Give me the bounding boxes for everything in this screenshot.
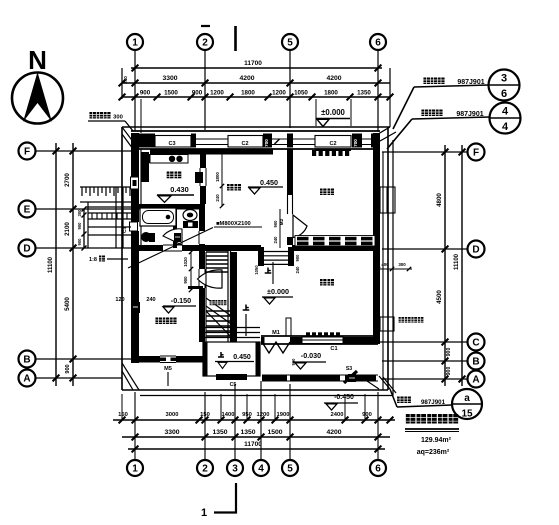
wall lines right end [362, 138, 371, 140]
apron corner diagonal top-left [122, 127, 137, 147]
svg-text:0.450: 0.450 [260, 178, 278, 187]
svg-text:900: 900 [446, 348, 452, 357]
AC shelf lower right (kongtiao geban) [380, 317, 394, 331]
svg-text:2100: 2100 [64, 222, 71, 236]
svg-text:120: 120 [115, 297, 124, 303]
section mark 1 top [234, 26, 237, 51]
svg-text:D: D [23, 244, 30, 255]
label toolroom [155, 318, 162, 325]
svg-text:4500: 4500 [436, 290, 443, 304]
grid line B horizontal [35, 358, 131, 360]
dim 1020/900 door M4 [190, 252, 192, 290]
svg-text:900: 900 [192, 90, 203, 97]
grid bubble B right [468, 353, 485, 370]
dimension column left overall 11100 [55, 143, 57, 386]
svg-text:C5: C5 [230, 382, 237, 388]
svg-text:aq=236m²: aq=236m² [417, 449, 450, 456]
svg-text:1200: 1200 [210, 90, 224, 97]
svg-text:240: 240 [273, 236, 278, 244]
grid bubble B left [19, 351, 36, 368]
apron outline [122, 126, 390, 128]
terrace corner steps bottom-right [367, 381, 379, 389]
svg-text:2400: 2400 [331, 412, 344, 418]
grid line 5 vertical [289, 50, 291, 128]
callout sanshui 987J901 leader [387, 119, 412, 149]
svg-text:900: 900 [65, 364, 71, 373]
steps dining to living [258, 247, 264, 266]
door M3 bath arc [163, 229, 182, 245]
extension connectors top dim rows [121, 68, 123, 99]
grid line A horizontal [35, 377, 122, 379]
grid line 4 vertical bottom [260, 381, 262, 460]
label living room [320, 279, 327, 286]
porch bottom band [216, 374, 247, 380]
svg-text:3: 3 [501, 73, 507, 85]
grid bubble D right [468, 241, 485, 258]
svg-text:6: 6 [375, 38, 381, 49]
staircase lower treads [206, 310, 235, 312]
wall stub under M4 door [188, 286, 203, 289]
door M2 bedroom arc [293, 215, 307, 238]
bathtub [140, 208, 176, 226]
wall grid2 upper kitchen east [200, 149, 206, 168]
grid bubble 3 bottom [227, 460, 243, 476]
ramp hatch comb [80, 186, 131, 188]
svg-text:5: 5 [287, 464, 293, 475]
svg-text:987J901: 987J901 [456, 111, 483, 118]
svg-text:900: 900 [273, 220, 278, 228]
svg-text:300: 300 [77, 209, 82, 217]
svg-text:1050: 1050 [254, 265, 259, 275]
grid bubble 1 bottom [127, 460, 143, 476]
svg-text:C2: C2 [329, 141, 336, 147]
porch side columns [203, 342, 207, 376]
svg-text:240: 240 [146, 297, 155, 303]
svg-text:0.450: 0.450 [233, 354, 251, 361]
label dining room [227, 184, 234, 191]
svg-text:3: 3 [232, 464, 238, 475]
svg-text:700: 700 [353, 139, 358, 147]
dim 1800/240 dining west [221, 152, 223, 206]
dimension row bottom 3300/1350/1350/1500/4200 [122, 436, 390, 438]
svg-text:-0.450: -0.450 [334, 394, 354, 401]
bedroom wardrobe dashes row D [295, 236, 375, 247]
wall top exterior band [131, 130, 380, 132]
svg-text:A: A [472, 375, 479, 386]
svg-text:900: 900 [291, 358, 296, 366]
wall row E kitchen south [137, 204, 203, 210]
svg-text:D: D [472, 245, 479, 256]
svg-text:1500: 1500 [267, 429, 282, 436]
grid bubble 2 top [197, 34, 213, 50]
svg-text:11700: 11700 [244, 441, 262, 448]
dimension row top 240/3300/4200/4200 [122, 82, 390, 84]
svg-text:S3: S3 [346, 366, 352, 372]
callout minggou text [423, 78, 430, 85]
svg-text:±0.000: ±0.000 [321, 108, 345, 117]
label storage room [210, 300, 215, 305]
kitchen west window slot [131, 177, 139, 189]
kitchen west counter block [141, 152, 149, 182]
wall bath partition tub/WC [173, 209, 177, 248]
grid bubble F left [19, 143, 36, 160]
svg-text:N: N [28, 45, 47, 75]
stair up arrow hall [245, 305, 247, 311]
grid line F horizontal [35, 150, 131, 152]
wall row B toolroom south [137, 356, 160, 363]
grid bubble 4 bottom [253, 460, 269, 476]
AC shelf upper right [380, 187, 395, 213]
svg-text:C: C [472, 338, 479, 349]
wall right exterior [373, 133, 380, 344]
svg-text:900: 900 [446, 367, 452, 376]
grid line E horizontal [35, 208, 131, 210]
dimension row top overall 11700 [131, 67, 382, 69]
svg-text:900: 900 [295, 254, 300, 262]
svg-text:11100: 11100 [48, 256, 54, 273]
svg-text:2: 2 [202, 464, 208, 475]
svg-text:5400: 5400 [64, 297, 71, 311]
wall left exterior [131, 133, 139, 222]
apron corner diagonal bottom-left [122, 363, 139, 390]
svg-text:■M800X2100: ■M800X2100 [216, 221, 251, 227]
grid bubble D left [19, 240, 36, 257]
svg-text:4200: 4200 [326, 75, 341, 82]
svg-text:F: F [473, 148, 479, 159]
svg-text:-0.150: -0.150 [171, 296, 191, 305]
svg-text:1350: 1350 [357, 90, 371, 97]
callout sanshui text [421, 110, 428, 117]
washbasin toolroom [142, 233, 151, 242]
grid line 2 vertical [204, 50, 206, 130]
window C3 top wall [155, 136, 191, 148]
grid bubble 6 bottom [370, 460, 386, 476]
callout circle 4/4 [490, 103, 521, 134]
svg-text:M1: M1 [272, 330, 280, 336]
grid bubble A right [468, 371, 485, 388]
wall lines between C2 and C2 [272, 138, 315, 140]
svg-text:C2: C2 [241, 141, 248, 147]
window C2 top wall right [315, 136, 351, 148]
grid line 6 vertical [377, 50, 379, 131]
svg-text:F: F [24, 147, 30, 158]
svg-text:700: 700 [264, 139, 269, 147]
dimension row top fine 900/1500/900/1200/1800/1200/1050/1800/1350 [122, 96, 390, 98]
svg-text:4: 4 [258, 464, 264, 475]
dimension column left 2700/2100/5400/900 [72, 143, 74, 386]
svg-text:2700: 2700 [64, 173, 71, 187]
svg-text:E: E [24, 205, 31, 216]
svg-text:1800: 1800 [241, 90, 255, 97]
wall row C living south [261, 335, 378, 337]
dim 900/240 door jamb dining [279, 209, 281, 248]
callout circle 3/6 [489, 70, 520, 101]
callout circle a/15 [452, 389, 482, 419]
grid bubble A left [19, 370, 36, 387]
staircase break diagonals [206, 298, 234, 318]
wall left exterior lower [131, 231, 139, 363]
svg-text:1: 1 [201, 507, 207, 519]
svg-text:900: 900 [183, 276, 188, 284]
svg-text:240: 240 [123, 76, 128, 84]
svg-text:1200: 1200 [272, 90, 286, 97]
svg-text:3300: 3300 [164, 429, 179, 436]
svg-text:4200: 4200 [326, 429, 341, 436]
wall grid2 middle WC east [199, 204, 205, 231]
apron corner diagonal top-right [378, 127, 390, 134]
svg-text:5: 5 [287, 38, 293, 49]
staircase upper treads [206, 251, 228, 253]
svg-text:a: a [464, 393, 470, 404]
staircase rails [227, 248, 229, 342]
svg-text:900: 900 [77, 222, 82, 230]
toilet [183, 210, 197, 221]
callout minggou 987J901 leader [393, 87, 414, 129]
bedroom north wall inner shadow [315, 149, 351, 152]
extension lines bottom [121, 394, 123, 420]
svg-text:4800: 4800 [436, 193, 443, 207]
grid bubble 6 top [370, 34, 386, 50]
dimension row bottom overall 11700 [128, 448, 385, 450]
svg-text:C1: C1 [330, 346, 337, 352]
svg-text:C3: C3 [168, 141, 175, 147]
svg-text:1350: 1350 [212, 429, 227, 436]
grid bubble 5 bottom [282, 460, 298, 476]
svg-text:M5: M5 [164, 366, 172, 372]
label bedroom [320, 189, 327, 196]
svg-text:4: 4 [502, 106, 509, 118]
svg-text:1350: 1350 [240, 429, 255, 436]
svg-text:900: 900 [140, 90, 151, 97]
grid line D horizontal [35, 247, 131, 249]
title yiceng pingmiantu [406, 414, 416, 424]
porch level 0.450 [220, 352, 222, 357]
porch outline [203, 342, 260, 376]
grid bubble 5 top [282, 34, 298, 50]
svg-text:11700: 11700 [244, 60, 262, 67]
svg-text:240: 240 [295, 266, 300, 274]
svg-text:B: B [472, 357, 479, 368]
callout taijie 987J901 leader [390, 389, 397, 407]
svg-text:±0.000: ±0.000 [267, 287, 289, 296]
svg-text:900: 900 [77, 238, 82, 246]
label kitchen [167, 172, 174, 179]
grid bubble 2 bottom [197, 460, 213, 476]
svg-text:129.94m²: 129.94m² [421, 437, 452, 444]
svg-text:1400: 1400 [222, 412, 235, 418]
dimension column right overall 11100 [461, 145, 463, 386]
grid bubble E left [19, 201, 36, 218]
callout taijie text [397, 397, 404, 404]
svg-text:150: 150 [118, 412, 128, 418]
note sanshui top-left [89, 112, 96, 119]
wall row D main [131, 245, 141, 251]
extension lines top [134, 99, 136, 127]
svg-text:300: 300 [398, 262, 406, 267]
svg-text:987J901: 987J901 [457, 79, 484, 86]
svg-text:3300: 3300 [162, 75, 177, 82]
svg-text:1200: 1200 [257, 412, 270, 418]
M1 left jamb [261, 337, 265, 344]
svg-text:1:8: 1:8 [89, 257, 97, 263]
wall row A terrace south edge [262, 375, 287, 381]
wall grid3 stair east [231, 252, 237, 327]
door M1 zigzag [262, 342, 290, 353]
svg-text:11100: 11100 [454, 253, 460, 270]
radiator below C2 window bedroom [312, 150, 316, 156]
svg-text:15: 15 [461, 409, 473, 420]
wall lines between C3 and C2 [196, 138, 228, 140]
dimension column right 4800/4500/900/900 [444, 145, 446, 386]
svg-text:1500: 1500 [164, 90, 178, 97]
grid bubble 1 top [127, 34, 143, 50]
staircase cut diagonal [206, 311, 236, 342]
svg-text:300: 300 [113, 115, 123, 121]
ramp lines [80, 201, 131, 203]
door M3 label block [174, 233, 181, 242]
svg-text:1: 1 [132, 38, 138, 49]
svg-text:240: 240 [215, 194, 220, 202]
dimension row bottom fine [113, 419, 395, 421]
door M4 storage arc [198, 270, 223, 288]
wall stub above M1 right [286, 318, 291, 336]
svg-text:150: 150 [200, 412, 210, 418]
inner wall band below top windows [150, 149, 273, 155]
porch steps top [203, 327, 260, 329]
svg-text:900: 900 [362, 412, 372, 418]
svg-text:1800: 1800 [215, 172, 220, 182]
svg-text:1050: 1050 [294, 90, 308, 97]
svg-text:2: 2 [202, 38, 208, 49]
label kongtiao geban [399, 317, 405, 323]
north arrow [12, 45, 63, 124]
svg-text:4200: 4200 [239, 75, 254, 82]
grid bubble F right [468, 144, 485, 161]
svg-text:0.430: 0.430 [170, 185, 189, 194]
svg-text:6: 6 [501, 88, 507, 100]
ramp step verticals [91, 213, 93, 219]
wall grid2 lower toolroom east [199, 252, 205, 269]
svg-text:B: B [23, 355, 30, 366]
svg-text:1800: 1800 [324, 90, 338, 97]
radiator above C1 window [306, 332, 310, 336]
kitchen SE cabinet [195, 172, 203, 183]
grid line C horizontal right [380, 341, 468, 343]
grid line 1 vertical [134, 50, 136, 131]
grid bubble C right [468, 334, 485, 351]
dimension right 400/300 at D [376, 268, 412, 270]
window C4 left wall [130, 222, 138, 231]
svg-text:6: 6 [375, 464, 381, 475]
svg-text:1020: 1020 [183, 257, 188, 267]
window C1 [302, 337, 343, 344]
wall grid5 dining/bedroom [287, 149, 293, 195]
svg-text:1: 1 [132, 464, 138, 475]
svg-text:-0.030: -0.030 [301, 351, 321, 360]
svg-text:3000: 3000 [166, 412, 179, 418]
svg-text:A: A [23, 374, 30, 385]
dimension column left fine 300/900/900 [83, 209, 85, 248]
window C2 top wall left [228, 136, 263, 148]
toilet tank [183, 221, 198, 228]
extension line apron right top [389, 99, 391, 127]
svg-text:987J901: 987J901 [421, 399, 446, 406]
svg-text:1900: 1900 [277, 412, 290, 418]
apron corner diagonal bottom-right [379, 376, 390, 389]
kitchen stove counter [150, 155, 188, 164]
grid line 3 vertical bottom [234, 384, 236, 460]
svg-text:4: 4 [502, 121, 509, 133]
